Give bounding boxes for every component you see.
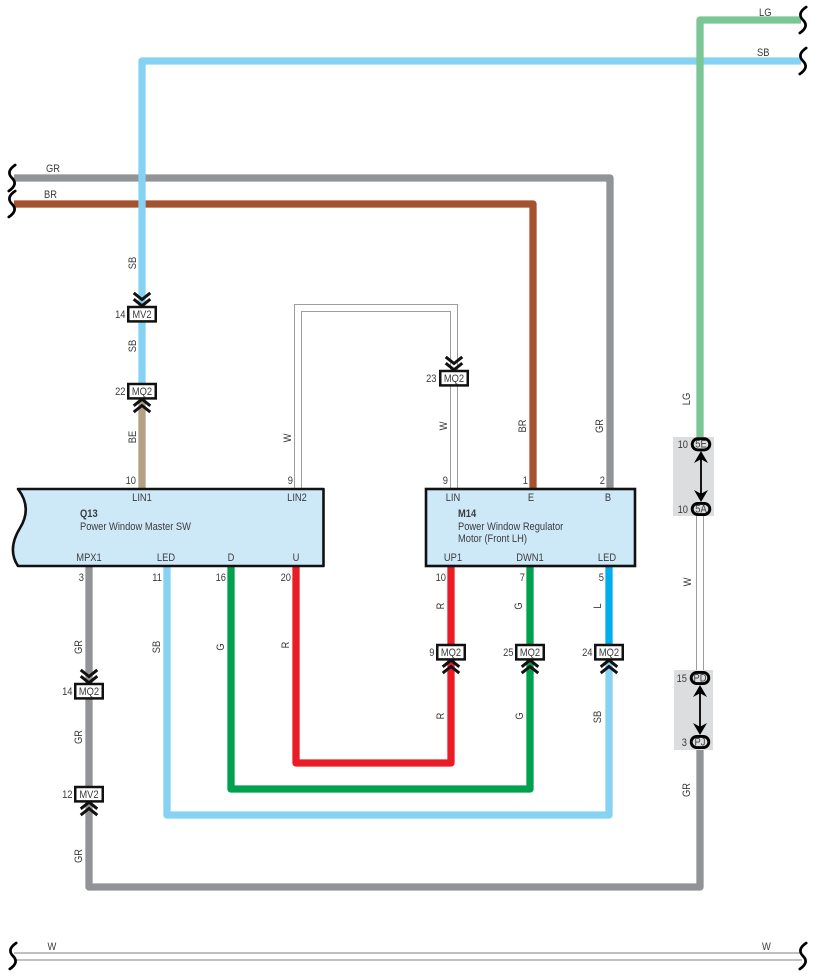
svg-text:10: 10 <box>678 504 689 516</box>
svg-text:14: 14 <box>115 309 126 321</box>
svg-text:3: 3 <box>682 737 687 749</box>
svg-text:7: 7 <box>520 572 525 584</box>
svg-text:GR: GR <box>594 419 606 433</box>
svg-text:10: 10 <box>436 572 447 584</box>
svg-text:R: R <box>435 603 447 610</box>
svg-text:W: W <box>48 941 57 953</box>
wire G from Q13 D across to M14 DWN1 connector <box>231 567 530 789</box>
pin 10 M14 UP1 <box>436 572 447 584</box>
junction arrow between PD and PJ <box>693 685 707 735</box>
wire SB top horizontal and vertical to connector MV2 <box>142 61 801 307</box>
label BR vertical <box>517 420 529 433</box>
svg-text:14: 14 <box>62 686 73 698</box>
wire break squiggle BR left <box>9 191 15 217</box>
pin 10 Q13 LIN1 <box>126 475 137 487</box>
svg-text:20: 20 <box>281 572 292 584</box>
connector 9 MQ2 <box>429 645 464 673</box>
label W vertical left <box>282 433 294 442</box>
label R vertical lower <box>435 713 447 720</box>
svg-text:MV2: MV2 <box>79 789 98 801</box>
svg-text:Q13: Q13 <box>80 508 98 520</box>
svg-text:GR: GR <box>73 849 85 863</box>
pin 9 M14 LIN <box>443 475 448 487</box>
label W vertical right <box>438 421 450 430</box>
wire BE from MQ2 to Q13 LIN1 <box>138 399 145 488</box>
svg-text:LED: LED <box>157 552 175 564</box>
svg-text:25: 25 <box>503 647 514 659</box>
wire SB between MV2 and MQ2 <box>138 321 145 384</box>
svg-text:1: 1 <box>523 475 528 487</box>
svg-text:W: W <box>762 941 771 953</box>
pin 9 Q13 LIN2 <box>288 475 293 487</box>
label BE vertical <box>127 431 139 444</box>
svg-text:MQ2: MQ2 <box>132 386 153 398</box>
label W vertical far right <box>682 577 694 586</box>
connector oval 5E <box>678 439 710 452</box>
block M14 Power Window Regulator Motor (Front LH) <box>426 489 635 566</box>
svg-text:SB: SB <box>757 47 770 59</box>
wire GR from Q13 MPX1 down across bottom and up to PJ <box>89 567 700 887</box>
label SB vertical mid <box>127 340 139 353</box>
svg-text:LG: LG <box>759 7 772 19</box>
label GR vertical left 3 <box>73 849 85 863</box>
wire break squiggle W bottom right <box>800 943 806 969</box>
connector 24 MQ2 <box>582 645 623 673</box>
wire BR horizontal to M14 pin E <box>14 204 533 488</box>
wire GR top horizontal to M14 pin B <box>14 178 610 488</box>
svg-text:5: 5 <box>599 572 604 584</box>
svg-text:BE: BE <box>127 431 139 444</box>
svg-text:LIN2: LIN2 <box>287 492 307 504</box>
svg-text:G: G <box>514 712 526 719</box>
label R vertical stub <box>435 603 447 610</box>
connector 12 MV2 <box>62 787 103 815</box>
svg-text:2: 2 <box>600 475 605 487</box>
svg-text:UP1: UP1 <box>444 552 462 564</box>
wire LG horizontal and vertical to connector 5E <box>700 20 801 440</box>
pin 5 M14 LED <box>599 572 604 584</box>
connector oval 5A <box>678 503 710 516</box>
svg-text:GR: GR <box>681 783 693 797</box>
svg-text:Power Window Regulator: Power Window Regulator <box>458 521 564 533</box>
wire G stub M14 DWN1 <box>526 567 533 645</box>
svg-text:5A: 5A <box>695 504 707 516</box>
svg-text:GR: GR <box>73 640 85 654</box>
svg-text:LIN1: LIN1 <box>132 492 152 504</box>
label G vertical stub <box>513 602 525 609</box>
svg-text:BR: BR <box>44 189 57 201</box>
label R vertical left <box>280 642 292 649</box>
svg-text:MQ2: MQ2 <box>444 373 465 385</box>
svg-text:LG: LG <box>681 393 693 406</box>
svg-text:L: L <box>592 603 604 608</box>
svg-text:MV2: MV2 <box>132 309 151 321</box>
wire W bottom rail <box>14 953 802 961</box>
wire break squiggle LG right <box>800 7 806 33</box>
label GR vertical <box>594 419 606 433</box>
wire L stub M14 LED <box>605 567 612 645</box>
wire break squiggle W bottom left <box>10 943 16 969</box>
svg-text:M14: M14 <box>458 508 476 520</box>
connector oval PD <box>677 672 709 685</box>
svg-text:9: 9 <box>443 475 448 487</box>
svg-text:U: U <box>293 552 300 564</box>
label GR vertical far right <box>681 783 693 797</box>
pin 1 M14 E <box>523 475 528 487</box>
pin 16 Q13 D <box>216 572 227 584</box>
svg-text:E: E <box>528 492 534 504</box>
svg-text:GR: GR <box>73 730 85 744</box>
svg-text:R: R <box>280 642 292 649</box>
svg-text:W: W <box>282 433 294 442</box>
svg-text:MQ2: MQ2 <box>441 647 462 659</box>
svg-text:MQ2: MQ2 <box>599 647 620 659</box>
grounded shield rect for 5E 5A junction <box>673 437 714 516</box>
pin 2 M14 B <box>600 475 605 487</box>
grounded shield rect for PD PJ junction <box>674 670 713 750</box>
pin 11 Q13 LED <box>152 572 162 584</box>
svg-text:15: 15 <box>677 673 688 685</box>
svg-text:SB: SB <box>151 641 163 654</box>
svg-text:24: 24 <box>582 647 593 659</box>
svg-text:22: 22 <box>115 386 126 398</box>
label GR vertical left 2 <box>73 730 85 744</box>
pin 20 Q13 U <box>281 572 292 584</box>
svg-text:MPX1: MPX1 <box>76 552 102 564</box>
label L vertical stub <box>592 603 604 608</box>
pin 3 Q13 MPX1 <box>79 572 84 584</box>
svg-text:GR: GR <box>46 163 60 175</box>
label LG top <box>759 7 772 19</box>
svg-text:MQ2: MQ2 <box>520 647 541 659</box>
svg-text:16: 16 <box>216 572 227 584</box>
svg-text:D: D <box>228 552 235 564</box>
wire W between 5A and PD <box>696 513 704 674</box>
connector oval PJ <box>682 736 709 749</box>
connector 23 MQ2 <box>426 357 468 386</box>
svg-text:9: 9 <box>288 475 293 487</box>
label W bottom left <box>48 941 57 953</box>
svg-text:10: 10 <box>678 439 689 451</box>
connector 25 MQ2 <box>503 645 544 673</box>
wire break squiggle GR left <box>9 165 15 191</box>
label W bottom right <box>762 941 771 953</box>
svg-text:PD: PD <box>694 673 707 685</box>
svg-text:5E: 5E <box>695 439 707 451</box>
svg-text:23: 23 <box>426 373 437 385</box>
svg-text:Motor (Front LH): Motor (Front LH) <box>458 533 527 545</box>
svg-text:B: B <box>605 492 611 504</box>
label G vertical lower <box>514 712 526 719</box>
svg-text:G: G <box>215 643 227 650</box>
svg-text:DWN1: DWN1 <box>516 552 544 564</box>
svg-text:SB: SB <box>127 257 139 270</box>
svg-text:LED: LED <box>598 552 616 564</box>
connector 14 MQ2 <box>62 670 103 699</box>
wire W loop from Q13 LIN2 to M14 LIN <box>298 308 454 488</box>
label SB vertical upper <box>127 257 139 270</box>
connector 22 MQ2 <box>115 384 156 412</box>
svg-text:MQ2: MQ2 <box>79 686 100 698</box>
pin 7 M14 DWN1 <box>520 572 525 584</box>
svg-text:PJ: PJ <box>695 737 706 749</box>
svg-text:SB: SB <box>127 340 139 353</box>
wire SB from Q13 LED across to M14 LED connector <box>167 567 609 815</box>
svg-text:SB: SB <box>592 711 604 724</box>
block Q13 Power Window Master SW <box>13 489 324 566</box>
svg-text:W: W <box>438 421 450 430</box>
junction arrow between 5E and 5A <box>694 451 708 502</box>
label G vertical left <box>215 643 227 650</box>
svg-text:LIN: LIN <box>446 492 461 504</box>
svg-text:R: R <box>435 713 447 720</box>
wire R from Q13 U across to M14 UP1 connector <box>296 567 451 763</box>
label SB vertical lower right <box>592 711 604 724</box>
connector 14 MV2 <box>115 293 156 322</box>
svg-text:W: W <box>682 577 694 586</box>
label SB vertical lower <box>151 641 163 654</box>
wire break squiggle SB right <box>800 48 806 74</box>
label GR vertical left 1 <box>73 640 85 654</box>
label BR top <box>44 189 57 201</box>
label SB top <box>757 47 770 59</box>
svg-text:BR: BR <box>517 420 529 433</box>
wire R stub M14 UP1 <box>447 567 454 645</box>
svg-text:3: 3 <box>79 572 84 584</box>
svg-text:Power Window Master SW: Power Window Master SW <box>80 521 191 533</box>
svg-text:12: 12 <box>62 789 73 801</box>
label LG vertical <box>681 393 693 406</box>
svg-text:9: 9 <box>429 647 434 659</box>
svg-text:10: 10 <box>126 475 137 487</box>
svg-text:G: G <box>513 602 525 609</box>
label GR top <box>46 163 60 175</box>
svg-text:11: 11 <box>152 572 162 584</box>
